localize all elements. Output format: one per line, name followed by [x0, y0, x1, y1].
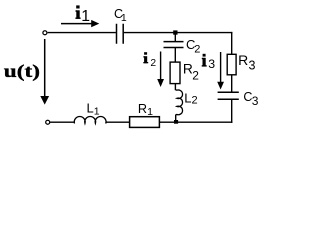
svg-text:2: 2 [192, 69, 199, 83]
wire stub L2 to bottom wire [175, 115, 177, 123]
inductor L1 [74, 117, 106, 124]
svg-text:L: L [87, 100, 94, 115]
node junction dot bottom (L2 branch) [174, 120, 178, 124]
wire stub R2 to L2 [174, 84, 176, 91]
svg-text:3: 3 [208, 57, 215, 71]
svg-text:u(t): u(t) [4, 61, 40, 82]
current label i3 [202, 54, 207, 67]
svg-text:1: 1 [147, 106, 153, 118]
resistor R2 [170, 62, 180, 84]
wire top from C1 to top-right corner [124, 32, 232, 34]
svg-text:2: 2 [192, 95, 198, 107]
current label i1 [75, 5, 80, 19]
wire R3 to C3 [231, 75, 233, 92]
current label i2 [143, 52, 148, 63]
capacitor C2 [164, 42, 184, 48]
wire bottom from L1 to left terminal [50, 121, 75, 123]
wire top from left terminal to C1 [48, 32, 116, 34]
current arrow i2 [157, 52, 164, 88]
svg-text:R: R [138, 102, 147, 116]
svg-text:1: 1 [81, 8, 90, 25]
wire right branch down to R3 [231, 32, 233, 55]
node junction dot top (C2 branch) [173, 30, 177, 34]
svg-text:R: R [238, 52, 248, 68]
voltage arrow u(t) [40, 39, 49, 105]
svg-text:L: L [184, 90, 191, 105]
current arrow i1 [61, 20, 99, 27]
svg-text:2: 2 [150, 58, 156, 69]
terminal top-left [43, 31, 47, 35]
svg-text:3: 3 [249, 59, 256, 73]
wire bottom right segment [159, 121, 232, 123]
capacitor C1 [117, 24, 124, 44]
wire C3 to bottom-right corner [231, 99, 233, 123]
current arrow i3 [217, 52, 224, 90]
svg-text:1: 1 [94, 106, 100, 118]
svg-text:2: 2 [194, 44, 200, 56]
wire stub C2 to R2 [174, 48, 176, 63]
svg-text:3: 3 [252, 94, 259, 108]
terminal bottom-left [46, 120, 50, 124]
resistor R1 [130, 117, 160, 128]
capacitor C3 [218, 92, 239, 99]
wire bottom between R1 and L1 [106, 121, 130, 123]
resistor R3 [227, 54, 236, 75]
wire stub junction to C2 [174, 33, 176, 42]
svg-text:1: 1 [121, 12, 127, 24]
inductor L2 [175, 90, 182, 115]
